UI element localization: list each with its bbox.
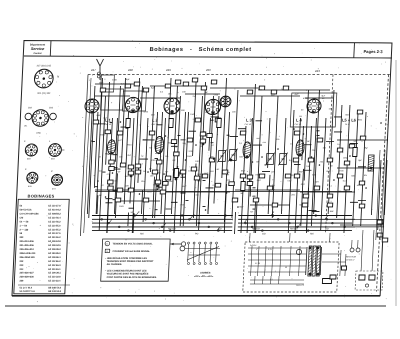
wire [305,97,333,99]
wire [224,184,226,233]
svg-text:206+209A 520: 206+209A 520 [19,256,35,259]
coil L2 [155,137,164,154]
component R67 [377,233,383,237]
component R29 [174,152,180,156]
wire [143,139,155,141]
wire [156,112,158,152]
svg-text:1MΩ: 1MΩ [187,156,192,158]
switch bus wire [92,215,352,217]
wire [98,123,106,125]
component R6 [109,167,115,171]
power transformer T1 [306,246,322,276]
wire [95,191,352,193]
wire [158,124,163,126]
label L2 backing [155,119,168,127]
fuse box [322,279,331,284]
component R58 [337,174,343,178]
component R49 [293,158,299,162]
coil L6 winding [368,155,374,171]
wire [340,224,383,226]
wire [113,167,118,169]
svg-text:25V: 25V [151,114,155,116]
wire [238,128,246,130]
component R72 [272,203,278,207]
component R32 [187,138,193,142]
wire [304,90,308,181]
component R48 [294,131,300,135]
subcircuit box antenna input [101,75,115,92]
component R75 [215,118,221,122]
component R64 [359,181,365,185]
svg-text:1MΩ: 1MΩ [119,206,124,208]
dial lamp [296,249,301,254]
paper bottom edge [5,305,386,307]
component R81 [209,158,215,162]
svg-text:Service: Service [31,47,45,51]
component R55 [327,158,333,162]
wire [155,158,158,160]
wire [300,191,355,193]
wire [361,230,363,271]
svg-text:5%: 5% [276,139,279,141]
wire [196,96,202,226]
svg-text:AZ 109 85.2: AZ 109 85.2 [48,248,61,251]
component R26 [155,180,161,184]
trimmer CV1 [217,150,227,163]
component R34 [200,139,206,143]
wire [302,126,304,160]
wire [193,82,196,156]
wire [353,112,358,226]
wire [113,190,118,192]
wire [304,205,309,207]
wire [95,83,140,85]
wire [350,142,358,144]
wire [155,209,158,211]
wire [289,233,291,242]
component R17 [134,82,140,86]
coil L1 [107,140,116,155]
tube V1 [85,99,100,113]
tube V2 [125,97,141,112]
component R5 [109,160,115,164]
wire [122,78,126,163]
component R14 [117,188,123,192]
oscillator labels [299,98,325,118]
wire [180,112,185,226]
power labels [248,245,307,287]
scan noise speckle [26,40,391,302]
trimmer CV4 [278,153,288,166]
wire [337,139,388,141]
wire [178,135,181,137]
component R41 [259,86,265,90]
svg-text:AZ 109 85.0: AZ 109 85.0 [48,252,61,255]
svg-text:FONT PARTIE DES BLOCS DE BOBIN: FONT PARTIE DES BLOCS DE BOBINAGES. [107,276,158,279]
label L3 [244,118,252,127]
svg-text:CM: CM [19,217,23,219]
parts table BOBINAGES [14,194,75,294]
wire [322,253,341,255]
component R62 [360,136,366,140]
svg-text:AZ 110 56.4: AZ 110 56.4 [48,216,61,219]
filter capacitor [341,266,346,270]
svg-text:osc: osc [99,171,102,173]
wire [114,86,120,214]
tube V4 [205,99,221,114]
component R79 [240,174,246,178]
svg-text:248: 248 [127,68,133,72]
trimmer CV2 [228,149,238,162]
page border frame [12,41,392,296]
wire [344,105,350,233]
component R63 [349,144,355,148]
svg-text:GO: GO [218,228,222,230]
wire [317,130,320,132]
svg-text:201 (21) 202: 201 (21) 202 [37,93,51,95]
wire [189,130,197,132]
component R9 [120,163,126,167]
svg-text:225+226+227: 225+226+227 [19,273,34,275]
component R38 [229,182,235,186]
component R44 [247,175,253,179]
label L2 [151,118,158,126]
tube V3 [164,98,181,114]
component R78 [149,131,155,135]
component R24 [211,80,217,84]
component C6 [241,182,246,191]
wire [211,119,214,121]
svg-text:(194): (194) [36,133,41,135]
component R27 [163,181,169,185]
wire [120,200,160,202]
component R74 [195,118,201,122]
svg-text:osc: osc [263,142,266,144]
label L1 [104,118,111,126]
component R77 [327,203,333,207]
component R43 [283,86,289,90]
component R70 [115,198,121,202]
wire [129,207,135,209]
wire [103,171,106,173]
svg-text:SECTEUR: SECTEUR [346,257,357,259]
svg-text:GO: GO [325,228,329,230]
wire [227,134,230,136]
wire [94,112,98,188]
wire [180,176,185,178]
wire [110,122,113,124]
component R16 [125,84,131,88]
wire [121,126,126,128]
wire [317,135,320,137]
wire [87,112,92,214]
wire [150,86,154,172]
wire [214,96,219,204]
switch bus wire [92,226,355,228]
svg-text:AZ 112 86.2: AZ 112 86.2 [48,260,61,263]
band switch detail [179,242,221,278]
svg-text:247: 247 [90,68,96,72]
svg-text:COURANT EN mA SANS SIGNAL: COURANT EN mA SANS SIGNAL [112,250,150,253]
component R36 [191,167,197,171]
wire [140,97,180,99]
wire [252,144,262,146]
wire [209,118,211,151]
svg-text:50: 50 [285,267,287,269]
header logo text [29,43,45,55]
svg-text:AB 148 54.8: AB 148 54.8 [48,287,62,290]
wire [106,82,110,165]
wire [371,160,374,215]
wire [171,86,177,214]
wire [161,118,166,214]
component C1 [126,119,131,128]
svg-text:GO: GO [262,234,266,236]
component R35 [207,134,213,138]
svg-text:TENSION EN VOLTS SANS SIGNAL: TENSION EN VOLTS SANS SIGNAL [112,242,153,245]
svg-text:AZ 110 56.2: AZ 110 56.2 [48,220,61,223]
wire [340,250,341,276]
tube V5 [307,99,322,113]
wire [115,173,117,218]
svg-text:201+205+206: 201+205+206 [19,245,34,247]
wire [105,198,112,200]
component R21 [183,82,189,86]
subcircuit box oscillator [290,93,337,127]
value labels [92,79,372,214]
wire [171,145,178,147]
component R61 [357,110,363,114]
svg-text:AZ 110 55.0: AZ 110 55.0 [48,224,61,227]
wire [326,141,334,143]
component R7 [108,180,114,184]
wire [301,169,304,226]
socket type labels [21,126,59,191]
component R76 [253,198,259,202]
wire [130,118,134,203]
wire [222,78,227,178]
schematic left border wire [80,75,88,237]
svg-text:1MΩ: 1MΩ [190,114,195,116]
wire [334,131,342,133]
component R13 [135,170,141,174]
svg-text:L 4: L 4 [296,118,303,123]
wire [309,209,317,211]
paper right edge [395,60,397,306]
svg-text:AZ 110 22.8: AZ 110 22.8 [48,276,61,279]
component R10 [128,165,134,169]
component R8 [108,186,114,190]
label L5 L6 backing [340,117,358,126]
wire [314,90,320,214]
svg-text:2 — 120: 2 — 120 [19,229,28,231]
wire [165,191,230,193]
component R65 [359,204,365,208]
component R53 [303,194,309,198]
junction dots [88,121,382,211]
svg-text:AVC: AVC [182,185,187,188]
wire [232,90,238,218]
svg-text:«OC» «PO» «GO»: «OC» «PO» «GO» [194,276,214,278]
component R31 [160,190,166,194]
component R4 [117,131,123,135]
component R59 [344,186,350,190]
svg-text:EZ 80: EZ 80 [255,263,260,265]
component R28 [171,140,177,144]
wire [256,96,262,233]
wire [306,126,311,233]
wire [84,78,91,233]
component R3 [105,130,111,134]
svg-text:AM GO: AM GO [168,227,176,230]
wire [193,163,196,218]
svg-text:AB 148 53.8: AB 148 53.8 [48,290,62,293]
wire [250,204,290,206]
component R37 [215,183,221,187]
svg-text:AZ 110 37.5: AZ 110 37.5 [48,232,61,235]
wire [211,116,220,118]
svg-text:0,1: 0,1 [270,279,273,281]
svg-text:AZ 109 28.1: AZ 109 28.1 [48,272,61,275]
component R83 [152,170,158,174]
wire [124,112,128,204]
wire [210,142,213,144]
svg-text:AM GO: AM GO [290,227,298,230]
trimmer CV3 [265,153,275,166]
component R15 [128,188,134,192]
svg-text:1MΩ: 1MΩ [343,158,348,160]
wire [256,120,262,122]
wire [113,154,118,156]
svg-text:osc: osc [195,195,198,197]
component R85 [180,170,186,174]
svg-text:25V: 25V [210,156,214,158]
wire [352,218,384,220]
wire [252,195,255,197]
svg-text:AZ 110 26.1: AZ 110 26.1 [48,268,61,271]
svg-text:110-245 V: 110-245 V [345,260,355,262]
svg-text:217 (216) 215: 217 (216) 215 [37,65,52,67]
wire [252,208,255,210]
wire [249,233,251,242]
wire [384,160,387,215]
component R87 [222,170,228,174]
svg-text:5%: 5% [165,156,168,158]
wire [268,175,270,214]
wire [185,199,188,201]
component R2 [93,120,99,124]
wire [208,160,211,214]
component R18 [143,88,149,92]
svg-text:AZ 109 84.5: AZ 109 84.5 [48,244,61,247]
wire [328,90,334,214]
svg-text:AM: AM [140,233,144,236]
coil L4 [296,140,305,156]
wire [345,254,346,276]
wire [132,213,135,233]
svg-text:PO: PO [195,234,199,236]
schematic dashed border right [376,75,388,292]
wire [254,202,255,233]
wire [95,189,160,191]
svg-text:5%: 5% [364,175,367,177]
label L1 backing [108,119,121,127]
svg-text:osc: osc [314,102,317,104]
svg-text:AZ 408 58.2: AZ 408 58.2 [48,213,61,216]
antenna Y [96,59,104,80]
antenna coupling loops [97,72,100,78]
svg-text:AVC: AVC [204,172,209,175]
wire [112,168,120,170]
svg-text:209+206+210: 209+206+210 [20,249,35,251]
svg-text:Pages 2-3: Pages 2-3 [363,49,383,54]
wire [164,78,171,233]
component R42 [271,90,277,94]
switch bus wire [92,218,355,220]
component C4 [174,169,179,178]
wire [268,118,270,168]
wire [143,118,148,222]
component R84 [165,176,171,180]
label L3 backing [249,119,262,127]
section labels [90,68,320,73]
component R40 [247,90,253,94]
component R51 [308,158,314,162]
wire [174,96,180,233]
wire [165,208,171,210]
label L4 backing [299,119,312,127]
wire [355,226,384,228]
component R25 [156,160,162,164]
wire [329,233,331,242]
component R11 [128,171,134,175]
component R19 [165,84,171,88]
component R22 [192,78,198,82]
tube socket diagram V5 [24,168,38,183]
wire [229,136,238,138]
wire [322,261,346,263]
wire [376,150,380,240]
wire [247,118,252,233]
wire [272,96,278,218]
wire [294,164,301,166]
wire [235,212,236,234]
wire [350,201,358,203]
svg-text:AM: AM [310,233,314,236]
wire [199,82,206,230]
wire [240,95,300,97]
component R39 [240,131,246,135]
svg-text:209A+209+210: 209A+209+210 [19,252,36,255]
component R71 [232,198,238,202]
wire [321,118,326,230]
wire [105,202,112,204]
switch labels [140,227,329,235]
svg-text:AZ 109 86.1: AZ 109 86.1 [48,256,61,259]
wire [138,86,143,183]
svg-text:249: 249 [165,68,171,72]
component R52 [314,186,320,190]
wire [99,96,105,230]
wire [92,140,95,142]
wire [381,150,385,240]
svg-text:AZ 110 37.8: AZ 110 37.8 [48,205,61,208]
wire [202,205,205,207]
svg-text:AVC: AVC [294,93,299,96]
tube socket diagram V2 [25,108,57,127]
component R23 [201,86,207,90]
wire [171,201,178,203]
